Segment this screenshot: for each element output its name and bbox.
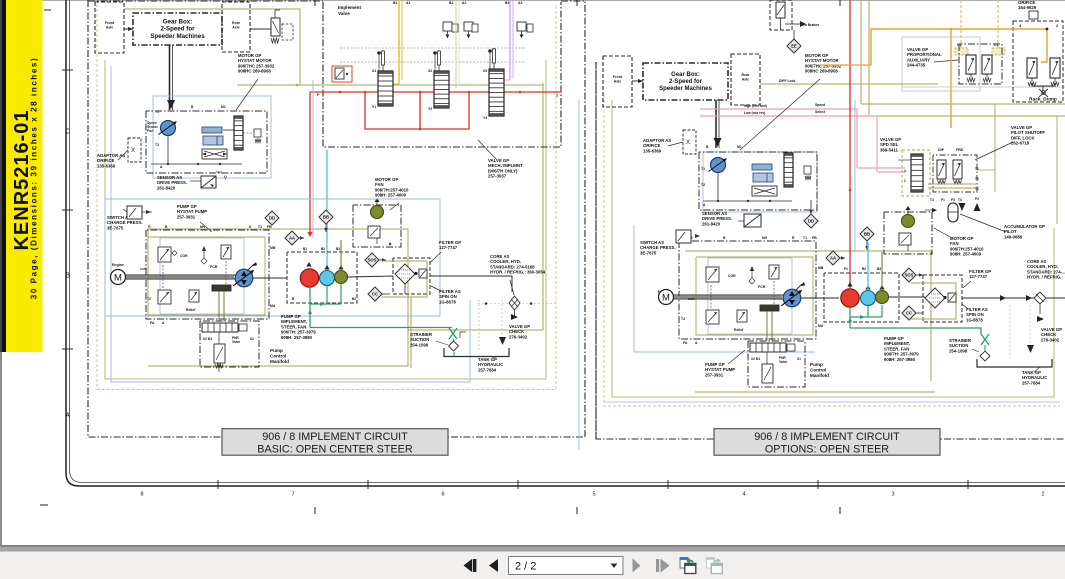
svg-text:T1: T1	[155, 110, 159, 114]
svg-text:X: X	[131, 148, 135, 154]
svg-text:B2: B2	[449, 1, 453, 5]
svg-text:6: 6	[441, 492, 444, 498]
svg-text:BASIC: OPEN CENTER STEER: BASIC: OPEN CENTER STEER	[257, 443, 413, 455]
svg-text:DIFF Lock: DIFF Lock	[779, 79, 796, 83]
svg-text:Valve: Valve	[338, 11, 350, 16]
svg-text:2-Speed for: 2-Speed for	[160, 26, 195, 33]
svg-text:SOS: SOS	[368, 258, 377, 263]
svg-text:7: 7	[291, 492, 294, 498]
svg-text:P1: P1	[844, 267, 848, 271]
svg-text:T2: T2	[701, 183, 705, 187]
svg-text:Rear: Rear	[742, 73, 751, 77]
svg-text:368-5411: 368-5411	[880, 147, 899, 152]
svg-text:MA: MA	[818, 324, 824, 328]
svg-text:M1: M1	[221, 105, 226, 109]
svg-text:2: 2	[904, 179, 906, 183]
svg-text:T1: T1	[258, 225, 262, 229]
svg-text:B2: B2	[321, 247, 325, 251]
svg-text:Implement: Implement	[338, 5, 361, 10]
svg-text:COR: COR	[140, 267, 148, 271]
svg-text:Axle: Axle	[742, 78, 750, 82]
svg-text:164-9629: 164-9629	[1018, 5, 1037, 10]
svg-text:Front: Front	[613, 75, 623, 79]
svg-text:2: 2	[1041, 492, 1044, 498]
svg-text:COR: COR	[728, 274, 736, 278]
svg-text:Q: Q	[224, 175, 227, 179]
svg-text:Select: Select	[815, 110, 826, 114]
svg-text:To Brakes: To Brakes	[803, 23, 819, 27]
svg-text:DD: DD	[808, 219, 814, 224]
svg-text:135-6369: 135-6369	[643, 148, 662, 153]
svg-text:Valve: Valve	[779, 360, 787, 364]
svg-text:Gear Box:: Gear Box:	[671, 72, 700, 78]
svg-text:B2: B2	[352, 297, 356, 301]
svg-text:X1: X1	[797, 357, 801, 361]
svg-text:4: 4	[742, 492, 745, 498]
svg-text:276-3402: 276-3402	[509, 334, 528, 339]
svg-text:A2: A2	[462, 1, 466, 5]
svg-text:Manifold: Manifold	[810, 373, 829, 378]
svg-text:Pump: Pump	[810, 362, 823, 367]
svg-text:Speed: Speed	[815, 103, 825, 107]
svg-text:257-3931: 257-3931	[177, 214, 196, 219]
svg-text:Control: Control	[270, 354, 286, 359]
svg-text:HYDR. / REFRIG.:: HYDR. / REFRIG.:	[1027, 275, 1063, 280]
svg-text:Speeder Machines: Speeder Machines	[150, 33, 205, 40]
svg-text:Control: Control	[810, 368, 826, 373]
svg-text:X2 M1: X2 M1	[203, 337, 212, 341]
svg-text:244-4735: 244-4735	[907, 63, 926, 68]
svg-text:BB: BB	[323, 215, 329, 220]
svg-text:COR: COR	[180, 254, 188, 258]
svg-text:T3: T3	[958, 198, 962, 202]
svg-text:B1: B1	[303, 247, 307, 251]
svg-text:Relief: Relief	[734, 328, 744, 332]
svg-text:906 / 8 IMPLEMENT CIRCUIT: 906 / 8 IMPLEMENT CIRCUIT	[754, 431, 900, 443]
svg-text:SOS: SOS	[905, 273, 914, 278]
svg-text:DIF: DIF	[938, 148, 945, 152]
svg-text:127-7747: 127-7747	[439, 245, 458, 250]
svg-text:P2: P2	[975, 197, 979, 201]
svg-text:P3: P3	[951, 198, 955, 202]
svg-text:3E-7675: 3E-7675	[107, 225, 124, 230]
svg-text:2 / 2: 2 / 2	[515, 561, 536, 573]
svg-text:254-1098: 254-1098	[410, 342, 429, 347]
svg-text:PA: PA	[150, 321, 155, 325]
svg-text:G: G	[148, 225, 151, 229]
svg-text:254-1098: 254-1098	[949, 348, 968, 353]
svg-text:257-7684: 257-7684	[478, 367, 497, 372]
svg-text:257-3931: 257-3931	[705, 372, 724, 377]
svg-text:T0: T0	[975, 177, 979, 181]
svg-text:CC: CC	[372, 292, 378, 297]
svg-text:Rear: Rear	[232, 21, 241, 25]
svg-text:Axle: Axle	[614, 80, 622, 84]
svg-text:30 Page, (Dimensions: 39 inche: 30 Page, (Dimensions: 39 inches x 28 inc…	[30, 57, 39, 299]
svg-text:PB: PB	[812, 236, 817, 240]
svg-text:T4: T4	[930, 198, 934, 202]
svg-text:NH: NH	[762, 236, 767, 240]
svg-text:T2: T2	[975, 187, 979, 191]
svg-text:FCR: FCR	[758, 285, 766, 289]
svg-text:X3: X3	[483, 69, 487, 73]
svg-text:Axle: Axle	[232, 26, 240, 30]
svg-text:Manifold: Manifold	[270, 359, 289, 364]
svg-text:M: M	[114, 272, 122, 283]
svg-text:Y1: Y1	[372, 105, 376, 109]
svg-text:T2: T2	[147, 297, 151, 301]
svg-text:OPTIONS: OPEN STEER: OPTIONS: OPEN STEER	[765, 443, 889, 455]
svg-text:X1: X1	[250, 337, 254, 341]
svg-text:T1: T1	[701, 167, 705, 171]
svg-text:A: A	[65, 412, 70, 419]
svg-text:Port: Port	[147, 129, 154, 133]
svg-text:Valve: Valve	[232, 340, 240, 344]
svg-text:908H: 257-4009: 908H: 257-4009	[375, 193, 407, 198]
svg-text:257-3937: 257-3937	[488, 174, 507, 179]
svg-text:PB: PB	[267, 225, 272, 229]
svg-text:Y2: Y2	[428, 107, 432, 111]
svg-text:M1: M1	[737, 145, 742, 149]
svg-text:B: B	[65, 272, 70, 279]
svg-text:908H: 257-3980: 908H: 257-3980	[884, 357, 916, 362]
svg-text:1G-8878: 1G-8878	[966, 317, 983, 322]
svg-text:B3: B3	[505, 1, 509, 5]
svg-text:T1: T1	[803, 236, 807, 240]
svg-text:1G-8878: 1G-8878	[439, 299, 456, 304]
svg-text:P1: P1	[941, 198, 945, 202]
svg-text:EE: EE	[791, 44, 797, 49]
svg-text:CC: CC	[906, 311, 912, 316]
svg-text:PA: PA	[683, 341, 688, 345]
svg-text:Axle: Axle	[106, 26, 114, 30]
svg-text:908HC 269-8908: 908HC 269-8908	[238, 69, 271, 74]
svg-text:Gear Box:: Gear Box:	[163, 19, 193, 26]
svg-text:AA: AA	[289, 236, 295, 241]
svg-text:261-8420: 261-8420	[702, 221, 721, 226]
svg-text:M: M	[662, 292, 670, 303]
svg-text:DD: DD	[269, 216, 275, 221]
svg-text:3: 3	[891, 492, 894, 498]
svg-text:5: 5	[592, 492, 595, 498]
svg-text:257-7684: 257-7684	[1022, 380, 1041, 385]
svg-text:C: C	[65, 128, 70, 135]
svg-text:Rack_Dump: Rack_Dump	[1029, 97, 1057, 103]
svg-text:262-6718: 262-6718	[1011, 141, 1030, 146]
svg-text:908H: 257-3980: 908H: 257-3980	[281, 335, 313, 340]
svg-text:Front: Front	[105, 21, 115, 25]
svg-text:High (mls fwd): High (mls fwd)	[744, 104, 767, 108]
svg-text:MB: MB	[818, 266, 824, 270]
svg-text:4: 4	[904, 169, 906, 173]
svg-text:908H: 257-4009: 908H: 257-4009	[950, 252, 982, 257]
svg-text:X: X	[686, 140, 690, 146]
svg-text:T1: T1	[975, 167, 979, 171]
svg-text:Pump: Pump	[270, 348, 283, 353]
svg-text:276-3402: 276-3402	[1041, 337, 1060, 342]
svg-text:BB: BB	[864, 232, 870, 237]
svg-text:B3: B3	[877, 267, 881, 271]
svg-text:B1: B1	[393, 1, 397, 5]
svg-text:135-6369: 135-6369	[97, 163, 116, 168]
svg-text:127-7747: 127-7747	[969, 274, 988, 279]
svg-text:AA: AA	[830, 256, 836, 261]
svg-text:T2: T2	[681, 317, 685, 321]
svg-text:COR: COR	[688, 297, 696, 301]
svg-text:Y3: Y3	[483, 116, 487, 120]
svg-text:HYDR. / REFRIG.: 360-3054: HYDR. / REFRIG.: 360-3054	[490, 270, 546, 275]
svg-text:FCR: FCR	[210, 265, 218, 269]
svg-text:X2: X2	[428, 69, 432, 73]
svg-text:A3: A3	[518, 1, 522, 5]
svg-text:B2: B2	[862, 267, 866, 271]
svg-text:T2: T2	[155, 143, 159, 147]
svg-text:Relief: Relief	[186, 308, 196, 312]
svg-text:FRD: FRD	[956, 148, 964, 152]
svg-text:MB: MB	[270, 246, 276, 250]
svg-text:Engine: Engine	[112, 263, 124, 267]
svg-text:Speeder Machines: Speeder Machines	[659, 86, 712, 92]
svg-text:261-8420: 261-8420	[157, 185, 176, 190]
svg-text:X1: X1	[372, 69, 376, 73]
svg-text:2-Speed for: 2-Speed for	[669, 79, 703, 85]
svg-text:X2 M1: X2 M1	[751, 357, 760, 361]
svg-text:Low (mls rev): Low (mls rev)	[744, 111, 765, 115]
svg-text:908HC 269-8908: 908HC 269-8908	[805, 69, 838, 74]
svg-text:8: 8	[140, 492, 143, 498]
svg-text:906 / 8 IMPLEMENT CIRCUIT: 906 / 8 IMPLEMENT CIRCUIT	[262, 431, 408, 443]
svg-text:A1: A1	[406, 1, 410, 5]
svg-text:MA: MA	[270, 304, 276, 308]
svg-text:3E-7675: 3E-7675	[640, 250, 657, 255]
svg-text:B3: B3	[336, 247, 340, 251]
svg-text:149-0686: 149-0686	[1004, 234, 1023, 239]
